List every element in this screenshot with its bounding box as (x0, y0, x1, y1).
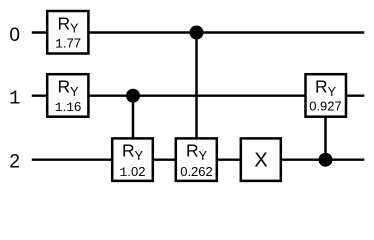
qubit label 1 (9, 88, 20, 110)
gate RY(0.927) on q1 (306, 74, 347, 117)
control dot on q0 (column of RY 0.262) (190, 26, 204, 40)
gate RY(1.02) on q2 (112, 138, 153, 181)
svg-text:1.77: 1.77 (55, 36, 81, 52)
control line from q2 dot to RY(0.927) (324, 114, 327, 160)
control dot on q1 (column of RY 1.02) (126, 89, 140, 103)
svg-text:0: 0 (9, 25, 20, 46)
control dot on q2 (column of RY 0.927) (319, 153, 333, 167)
qubit label 2 (9, 152, 20, 173)
qubit label 0 (9, 25, 20, 46)
svg-text:1.16: 1.16 (55, 99, 81, 115)
svg-text:0.927: 0.927 (309, 98, 342, 113)
gate X on q2 (241, 138, 281, 181)
gate RY(1.77) on q0 (47, 11, 88, 54)
wire q2 (32, 158, 365, 160)
svg-text:X: X (254, 149, 267, 171)
gate RY(1.16) on q1 (47, 74, 88, 117)
svg-text:2: 2 (9, 152, 20, 173)
gate RY(0.262) on q2 (176, 138, 217, 181)
svg-text:0.262: 0.262 (180, 164, 213, 179)
wire q1 (32, 94, 365, 96)
control line from q1 dot to RY(1.02) (132, 96, 135, 140)
svg-text:1.02: 1.02 (120, 164, 146, 180)
wire q0 (32, 31, 365, 33)
svg-text:1: 1 (9, 88, 20, 110)
control line from q0 dot to RY(0.262) (195, 33, 198, 141)
